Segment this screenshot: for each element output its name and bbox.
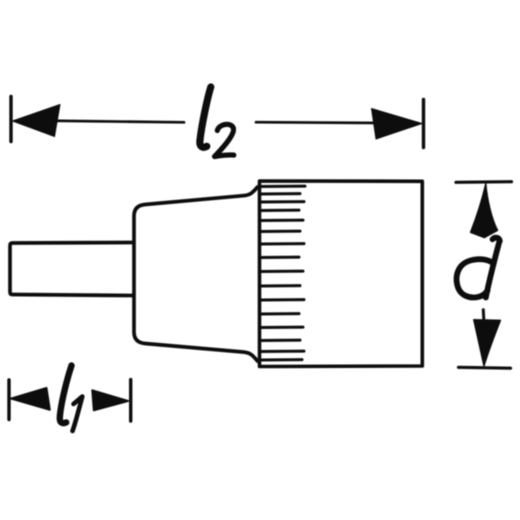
dimension l1 arrow left — [11, 388, 50, 410]
dimension l1 tick right — [129, 380, 132, 421]
knurl line 12 — [261, 312, 299, 315]
dimension d tick top — [456, 180, 512, 184]
socket body — [260, 181, 423, 367]
label l1 — [60, 366, 83, 432]
knurl line 4 — [261, 209, 299, 212]
knurl line 1 — [261, 185, 305, 188]
dimension l2 tick left — [9, 97, 12, 142]
knurl line 8 — [261, 256, 299, 259]
dimension d tick bottom — [459, 366, 511, 370]
label l2 — [200, 87, 234, 157]
bit shank — [10, 243, 133, 296]
knurl line 5 — [261, 219, 303, 222]
label d — [457, 238, 500, 298]
dimension l2 tick right — [422, 100, 425, 148]
dimension d arrow up — [471, 184, 498, 238]
knurl line 3 — [261, 200, 304, 203]
knurl line 11 — [261, 298, 304, 301]
knurl line 7 — [261, 242, 304, 245]
taper collar — [134, 187, 258, 361]
knurl line 9 — [261, 270, 303, 273]
knurl line 15 — [261, 350, 304, 353]
dimension l2 line left segment — [30, 121, 184, 123]
dimension l1 tick left — [7, 380, 10, 420]
knurl line 16 — [261, 358, 302, 361]
knurl line 2 — [261, 192, 300, 195]
dimension l2 line right segment — [256, 121, 388, 125]
knurl line 14 — [261, 339, 300, 342]
knurl line 10 — [261, 284, 300, 287]
dimension d arrow down — [482, 310, 486, 320]
knurl line 6 — [261, 230, 300, 233]
knurl line 13 — [261, 326, 303, 329]
dimension l1 arrow right — [92, 390, 128, 410]
dimension l2 arrow right — [372, 109, 423, 140]
dimension l2 arrow left — [13, 105, 61, 137]
